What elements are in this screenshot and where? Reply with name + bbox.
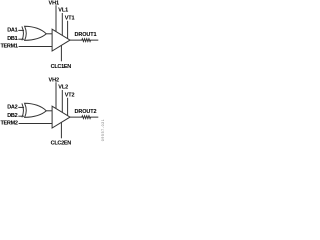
- svg-text:VL2: VL2: [58, 85, 68, 91]
- wire DA2 input: [18, 106, 24, 108]
- svg-text:TERM2: TERM2: [0, 121, 17, 127]
- wire DROUT2 output with resistor R2: [70, 116, 98, 119]
- svg-text:VT2: VT2: [65, 93, 75, 99]
- svg-text:VH1: VH1: [49, 0, 59, 6]
- svg-text:DB2: DB2: [7, 113, 17, 119]
- svg-text:VL1: VL1: [58, 8, 68, 14]
- svg-text:DB1: DB1: [7, 36, 17, 42]
- svg-text:DROUT2: DROUT2: [75, 109, 97, 115]
- wire VL1: [61, 13, 63, 35]
- wire DB1 input: [18, 38, 24, 40]
- xor gate G1: [22, 26, 46, 40]
- svg-text:09557-021: 09557-021: [101, 119, 104, 142]
- wire VL2: [61, 90, 63, 112]
- svg-text:DA1: DA1: [7, 28, 17, 34]
- wire VT2: [67, 98, 69, 116]
- wire XOR output to driver: [46, 33, 52, 35]
- svg-text:CLC1EN: CLC1EN: [51, 64, 72, 70]
- wire XOR2 output to driver: [46, 110, 52, 112]
- wire CLC1EN: [60, 45, 62, 61]
- svg-text:DROUT1: DROUT1: [75, 32, 97, 38]
- or body: [25, 26, 47, 40]
- xor back curve: [22, 26, 24, 40]
- xor back curve: [22, 103, 24, 117]
- svg-text:DA2: DA2: [7, 105, 17, 111]
- wire VH2: [55, 82, 57, 108]
- svg-text:VT1: VT1: [65, 16, 75, 22]
- or body: [25, 103, 47, 117]
- svg-text:CLC2EN: CLC2EN: [51, 141, 72, 146]
- wire DB2 input: [18, 115, 24, 117]
- driver U1 triangle: [52, 29, 70, 51]
- wire VT1: [67, 21, 69, 39]
- wire DROUT1 output with resistor R1: [70, 39, 98, 42]
- svg-text:TERM1: TERM1: [0, 44, 17, 50]
- driver U2 triangle: [52, 106, 70, 128]
- svg-text:VH2: VH2: [49, 77, 59, 83]
- wire DA1 input: [18, 29, 24, 31]
- xor gate G2: [22, 103, 46, 117]
- wire TERM2 to driver: [19, 123, 53, 125]
- wire TERM1 to driver: [19, 46, 53, 48]
- wire CLC2EN: [60, 122, 62, 138]
- wire VH1: [55, 5, 57, 31]
